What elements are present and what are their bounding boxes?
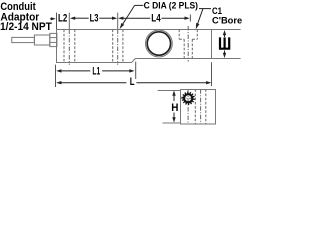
svg-text:1/2-14 NPT: 1/2-14 NPT bbox=[0, 21, 52, 33]
L1 right extension line bbox=[135, 62, 137, 79]
body outline (side view) bbox=[57, 30, 212, 63]
svg-text:L: L bbox=[130, 76, 135, 88]
threaded hole hatch ring bbox=[182, 92, 195, 105]
C1 leader line bbox=[197, 9, 211, 27]
C1 leader arrowhead bbox=[196, 23, 200, 29]
hole 2 hidden lines (dashed) bbox=[113, 30, 123, 63]
L dimension line bbox=[56, 81, 61, 84]
C1 counterbore hidden lines bbox=[179, 30, 197, 59]
threaded hole centerline vertical bbox=[187, 90, 189, 124]
load button hole: inner circle bbox=[147, 32, 170, 55]
end view hole centerline vertical bbox=[200, 89, 202, 124]
L4 dimension line with arrows bbox=[118, 17, 123, 20]
conduit adaptor: mid block bbox=[34, 35, 49, 45]
label H halo bbox=[170, 101, 180, 112]
conduit adaptor: hex flange bbox=[50, 33, 57, 46]
threaded hole centerline horizontal bbox=[181, 97, 196, 99]
svg-text:L2: L2 bbox=[58, 12, 67, 24]
svg-text:H: H bbox=[171, 102, 178, 114]
end view rectangle bbox=[181, 90, 216, 125]
end view hidden hole lines bbox=[195, 89, 206, 124]
svg-text:C'Bore: C'Bore bbox=[212, 14, 242, 25]
hole 1 hidden lines (dashed) bbox=[64, 30, 75, 63]
C DIA leader arrowhead at hole2 bbox=[120, 23, 125, 29]
load button hole: outer circle bbox=[146, 30, 173, 57]
leader arrow to adaptor / L2 outside arrow bbox=[50, 18, 54, 20]
conduit adaptor: thin tube bbox=[12, 37, 35, 42]
centerline hole2 (ext C), dash-dot bbox=[117, 13, 119, 30]
extension line A (body left edge) bbox=[56, 13, 58, 30]
L right extension line bbox=[211, 62, 213, 86]
H bottom extension line bbox=[163, 122, 181, 124]
svg-text:L3: L3 bbox=[90, 12, 99, 24]
short tick after L4 arrow bbox=[189, 15, 191, 22]
H dimension line and arrows bbox=[172, 90, 175, 95]
W top extension line bbox=[211, 29, 241, 31]
W dimension line and arrows bbox=[224, 34, 226, 38]
L3 dimension line with arrows bbox=[70, 17, 75, 20]
threaded hole inner circle bbox=[184, 94, 192, 102]
C DIA leader line bbox=[121, 5, 143, 26]
C1 counterbore centerline bbox=[187, 26, 189, 62]
H top extension line bbox=[158, 90, 181, 92]
svg-text:L4: L4 bbox=[151, 13, 161, 25]
label W (rotated, drawn as shape) bbox=[219, 37, 230, 49]
L1 left extension line bbox=[55, 65, 57, 87]
L1 dimension line bbox=[56, 69, 61, 72]
svg-text:L1: L1 bbox=[92, 65, 100, 77]
W bottom extension line bbox=[211, 58, 241, 60]
svg-text:C DIA (2 PLS): C DIA (2 PLS) bbox=[144, 0, 198, 11]
centerline hole1 (ext B), dash-dot bbox=[68, 13, 70, 30]
